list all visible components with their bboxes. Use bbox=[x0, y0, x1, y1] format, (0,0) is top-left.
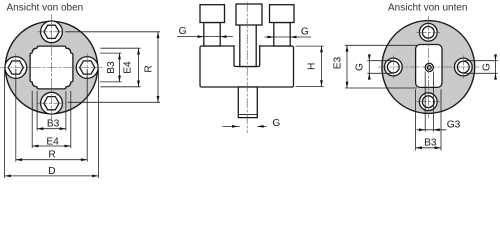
dimension D horizontal bbox=[5, 69, 99, 178]
centerline vertical left view bbox=[51, 14, 53, 122]
svg-text:G: G bbox=[179, 26, 187, 37]
svg-text:B3: B3 bbox=[424, 138, 437, 149]
front view body bbox=[200, 46, 294, 87]
centerline horizontal left view bbox=[0, 67, 103, 69]
dimension G right bottom-view bbox=[464, 54, 498, 79]
svg-text:Ansicht von oben: Ansicht von oben bbox=[7, 3, 84, 14]
screw left circle bbox=[5, 54, 27, 82]
svg-text:G: G bbox=[272, 118, 280, 129]
svg-text:Ansicht von unten: Ansicht von unten bbox=[388, 3, 468, 14]
right screw shaft front bbox=[274, 23, 290, 47]
svg-text:G3: G3 bbox=[447, 120, 461, 131]
svg-text:R: R bbox=[48, 149, 55, 160]
dimension G left bottom-view bbox=[355, 54, 393, 79]
center stud shaft bbox=[240, 25, 256, 67]
dimension B3 horizontal bbox=[37, 91, 66, 131]
svg-text:E3: E3 bbox=[333, 56, 344, 69]
dimension E4 horizontal bbox=[32, 91, 71, 148]
dimension E3 bbox=[333, 45, 417, 88]
screw top circle bbox=[38, 21, 66, 43]
dimension H front bbox=[296, 46, 324, 87]
svg-text:E4: E4 bbox=[123, 61, 134, 74]
dimension R vertical bbox=[65, 32, 160, 103]
svg-text:E4: E4 bbox=[46, 136, 59, 147]
clamping plate clover contour bbox=[30, 46, 73, 89]
svg-text:H: H bbox=[307, 63, 318, 70]
dimension R horizontal bbox=[16, 69, 87, 162]
bottom shaft front bbox=[238, 87, 257, 118]
left screw shaft front bbox=[204, 23, 220, 47]
centerline front view bbox=[246, 2, 248, 133]
svg-text:R: R bbox=[144, 65, 155, 72]
dimension B3 bottom-view bbox=[416, 89, 441, 150]
bottom view body circle bbox=[382, 21, 475, 114]
hole bottom bottom-view bbox=[417, 93, 441, 111]
centerline vertical right view bbox=[427, 16, 429, 118]
right screw head front bbox=[270, 5, 295, 23]
svg-text:G: G bbox=[482, 63, 493, 71]
front view slot bbox=[234, 45, 260, 66]
svg-text:B3: B3 bbox=[106, 61, 117, 74]
hole left bottom-view bbox=[384, 56, 402, 79]
center hole bottom view bbox=[425, 63, 433, 71]
svg-text:G: G bbox=[355, 63, 366, 71]
bottom view center plate bbox=[416, 45, 442, 88]
dimension G left front bbox=[177, 26, 233, 38]
dimension B3 vertical bbox=[100, 53, 122, 82]
screw right circle bbox=[76, 54, 98, 82]
svg-text:D: D bbox=[48, 166, 55, 177]
hole right bottom-view bbox=[454, 56, 472, 79]
hole top bottom-view bbox=[417, 23, 441, 41]
svg-text:B3: B3 bbox=[47, 118, 60, 129]
dimension G right front bbox=[265, 27, 312, 39]
dimension G3 bbox=[417, 72, 461, 132]
svg-text:G: G bbox=[301, 27, 309, 38]
screw bottom circle bbox=[38, 92, 66, 114]
centerline horizontal right view bbox=[378, 66, 480, 68]
center stud head bbox=[236, 4, 262, 25]
dimension G bottom front bbox=[223, 118, 281, 129]
dimension E4 vertical bbox=[101, 48, 141, 87]
top view body circle bbox=[5, 21, 97, 113]
left screw head front bbox=[200, 5, 225, 23]
